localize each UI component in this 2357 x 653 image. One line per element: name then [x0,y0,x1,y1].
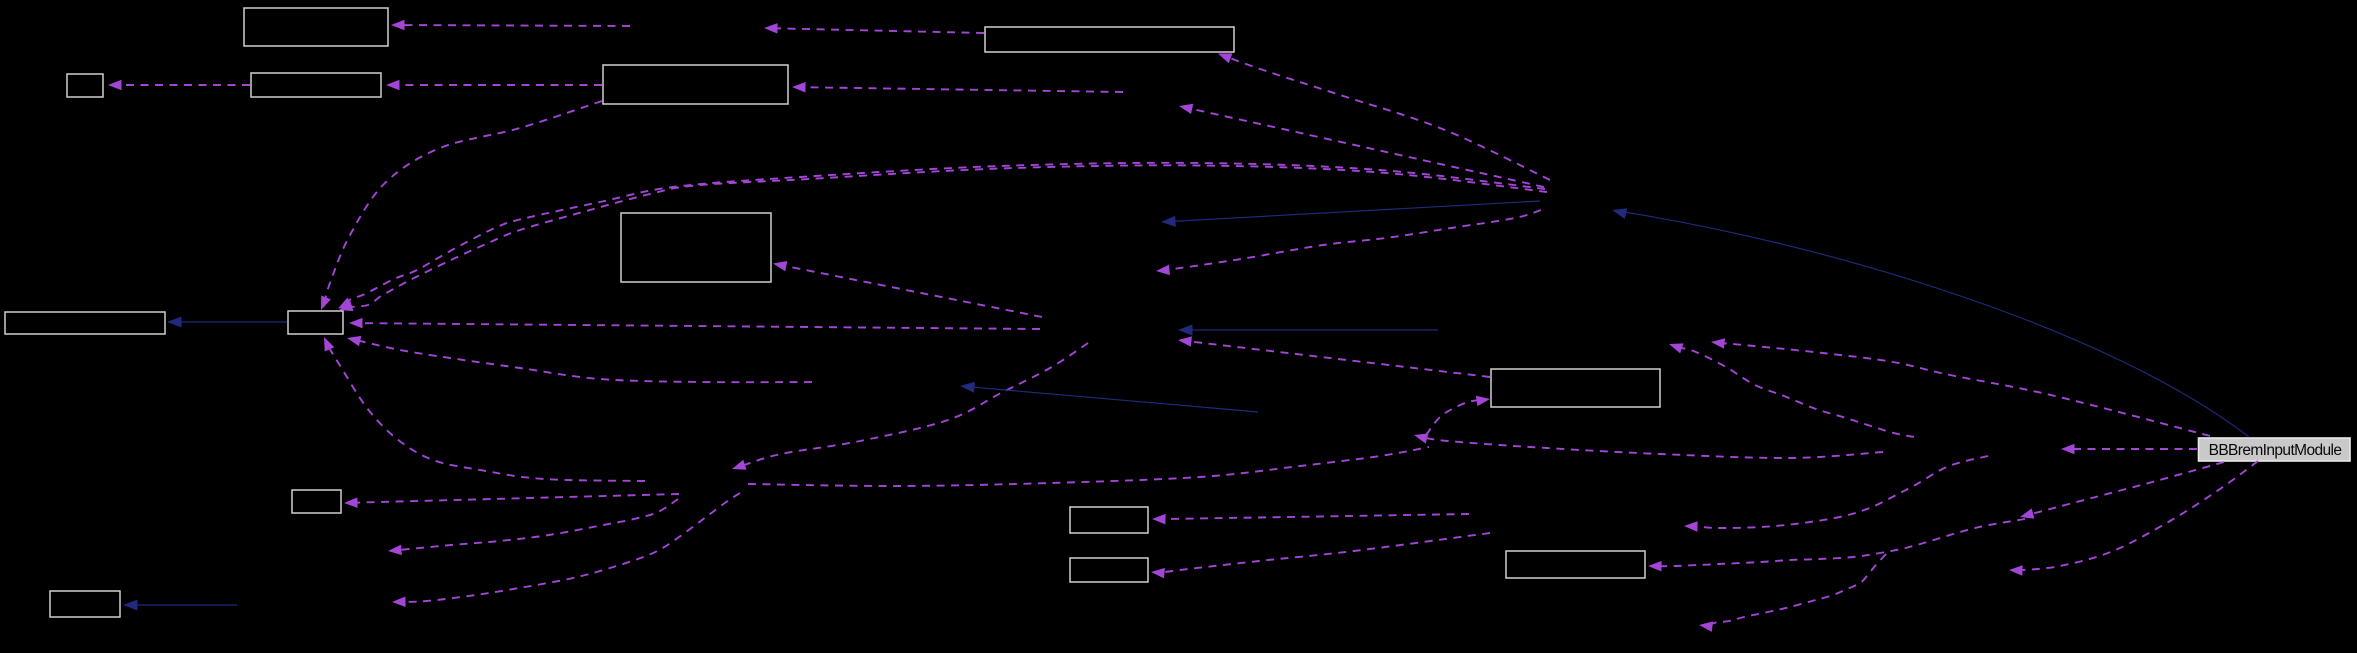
svg-text:BBBremInputModule: BBBremInputModule [2209,442,2342,459]
